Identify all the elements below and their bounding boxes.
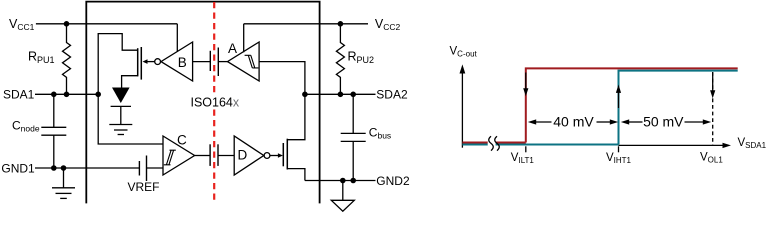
- junction SDA1/Cnode: [51, 92, 57, 98]
- ground (diode): [109, 124, 132, 126]
- teal trace rising edge and high segment: [619, 71, 738, 145]
- wire VCC2: [244, 23, 368, 25]
- resistor RPU2: [336, 24, 344, 95]
- wire Q2 drain to SDA2: [287, 94, 305, 139]
- resistor RPU1: [63, 24, 71, 95]
- wire B output arrow to Q1 gate: [147, 61, 154, 63]
- svg-text:C: C: [177, 133, 187, 148]
- junction GND1/Cnode: [51, 165, 57, 171]
- wire GND2: [305, 180, 376, 182]
- junction GND2/Cbus: [350, 178, 356, 184]
- capacitor (isolation, top channel): [209, 51, 211, 71]
- svg-text:B: B: [178, 55, 187, 70]
- bubble B output: [155, 59, 161, 65]
- wire isolation cap to D input: [218, 155, 234, 157]
- IC package box (ISO164x): [86, 2, 319, 204]
- arrow down on red edge (VILT1): [525, 73, 527, 89]
- capacitor Cbus: [352, 94, 354, 133]
- svg-text:D: D: [238, 148, 248, 163]
- junction SDA2 internal: [302, 92, 308, 98]
- wire D output arrow to Q2 gate: [270, 155, 278, 157]
- isolation barrier dashed line: [213, 2, 215, 94]
- op-amp buffer A (schmitt transmitter, side 2): [228, 42, 260, 81]
- wire SDA1: [35, 93, 98, 95]
- bubble D output: [264, 153, 270, 159]
- teal trace low segment: [462, 144, 487, 146]
- wire B top entry from VCC1 line: [176, 24, 178, 52]
- x axis (right of VIHT1): [619, 144, 724, 146]
- tick VIHT1: [618, 146, 620, 152]
- junction SDA1 internal: [95, 92, 101, 98]
- junction GND2/ground: [340, 178, 346, 184]
- wire SDA2: [305, 93, 376, 95]
- svg-text:A: A: [228, 41, 237, 56]
- transistor Q2 (side-2 pulldown NMOS): [282, 143, 284, 166]
- op-amp buffer D (receiver, side 2): [234, 136, 264, 175]
- wire isolation cap to B input: [193, 61, 211, 63]
- wire A output to isolation cap: [218, 61, 227, 63]
- svg-text:ISO164x: ISO164x: [191, 95, 240, 109]
- wire Q2 source to GND2: [287, 169, 305, 181]
- svg-text:GND1: GND1: [1, 161, 35, 175]
- dimension arrow 40 mV: [534, 121, 552, 123]
- wire Q1 source: [122, 76, 138, 88]
- svg-text:50 mV: 50 mV: [643, 113, 684, 129]
- red trace low segment: [462, 142, 487, 144]
- capacitor VREF (reference cap in GND1 path): [138, 161, 140, 176]
- arrow down on VOL1 dashed line: [712, 73, 714, 92]
- wire A input from SDA2: [259, 62, 305, 95]
- dimension arrow 50 mV: [627, 121, 643, 123]
- transistor Q1 (side-1 pulldown FET): [137, 48, 139, 76]
- wire GND1 to VREF cap: [35, 167, 139, 169]
- svg-text:SDA2: SDA2: [376, 88, 408, 102]
- svg-text:GND2: GND2: [376, 174, 410, 188]
- svg-text:40 mV: 40 mV: [553, 113, 594, 129]
- arrow up on teal edge (VIHT1): [618, 92, 620, 108]
- junction SDA1/RPU1: [64, 92, 70, 98]
- junction SDA2/Cbus: [350, 92, 356, 98]
- wire VCC1: [36, 23, 177, 25]
- junction SDA2/RPU2: [338, 92, 344, 98]
- ground GND1: [63, 168, 65, 188]
- wire SDA1 to Q1 drain (staircase): [98, 34, 138, 95]
- op-amp buffer C (schmitt transmitter, side 1): [163, 136, 195, 175]
- junction VCC1/RPU1: [64, 21, 70, 27]
- tick VILT1: [525, 146, 527, 152]
- diode D1 (series diode to ground): [112, 88, 130, 104]
- wire SDA1 to buffer C input: [98, 94, 163, 144]
- op-amp buffer B (receiver, side 1): [161, 42, 193, 81]
- wire C output to isolation cap: [195, 155, 211, 157]
- svg-text:VREF: VREF: [128, 180, 160, 194]
- junction GND1/ground: [61, 165, 67, 171]
- svg-text:SDA1: SDA1: [3, 88, 35, 102]
- junction VCC2/RPU2: [338, 21, 344, 27]
- red trace rising edge and high segment: [526, 68, 738, 142]
- capacitor (isolation, bottom channel): [209, 144, 211, 166]
- capacitor Cnode: [53, 94, 55, 127]
- y axis: [461, 73, 463, 148]
- ground GND2 (open triangle): [342, 181, 344, 201]
- dashed line VOL1: [712, 72, 714, 145]
- wire A top entry from VCC2 line: [243, 24, 245, 53]
- axis break squiggles: [489, 136, 494, 150]
